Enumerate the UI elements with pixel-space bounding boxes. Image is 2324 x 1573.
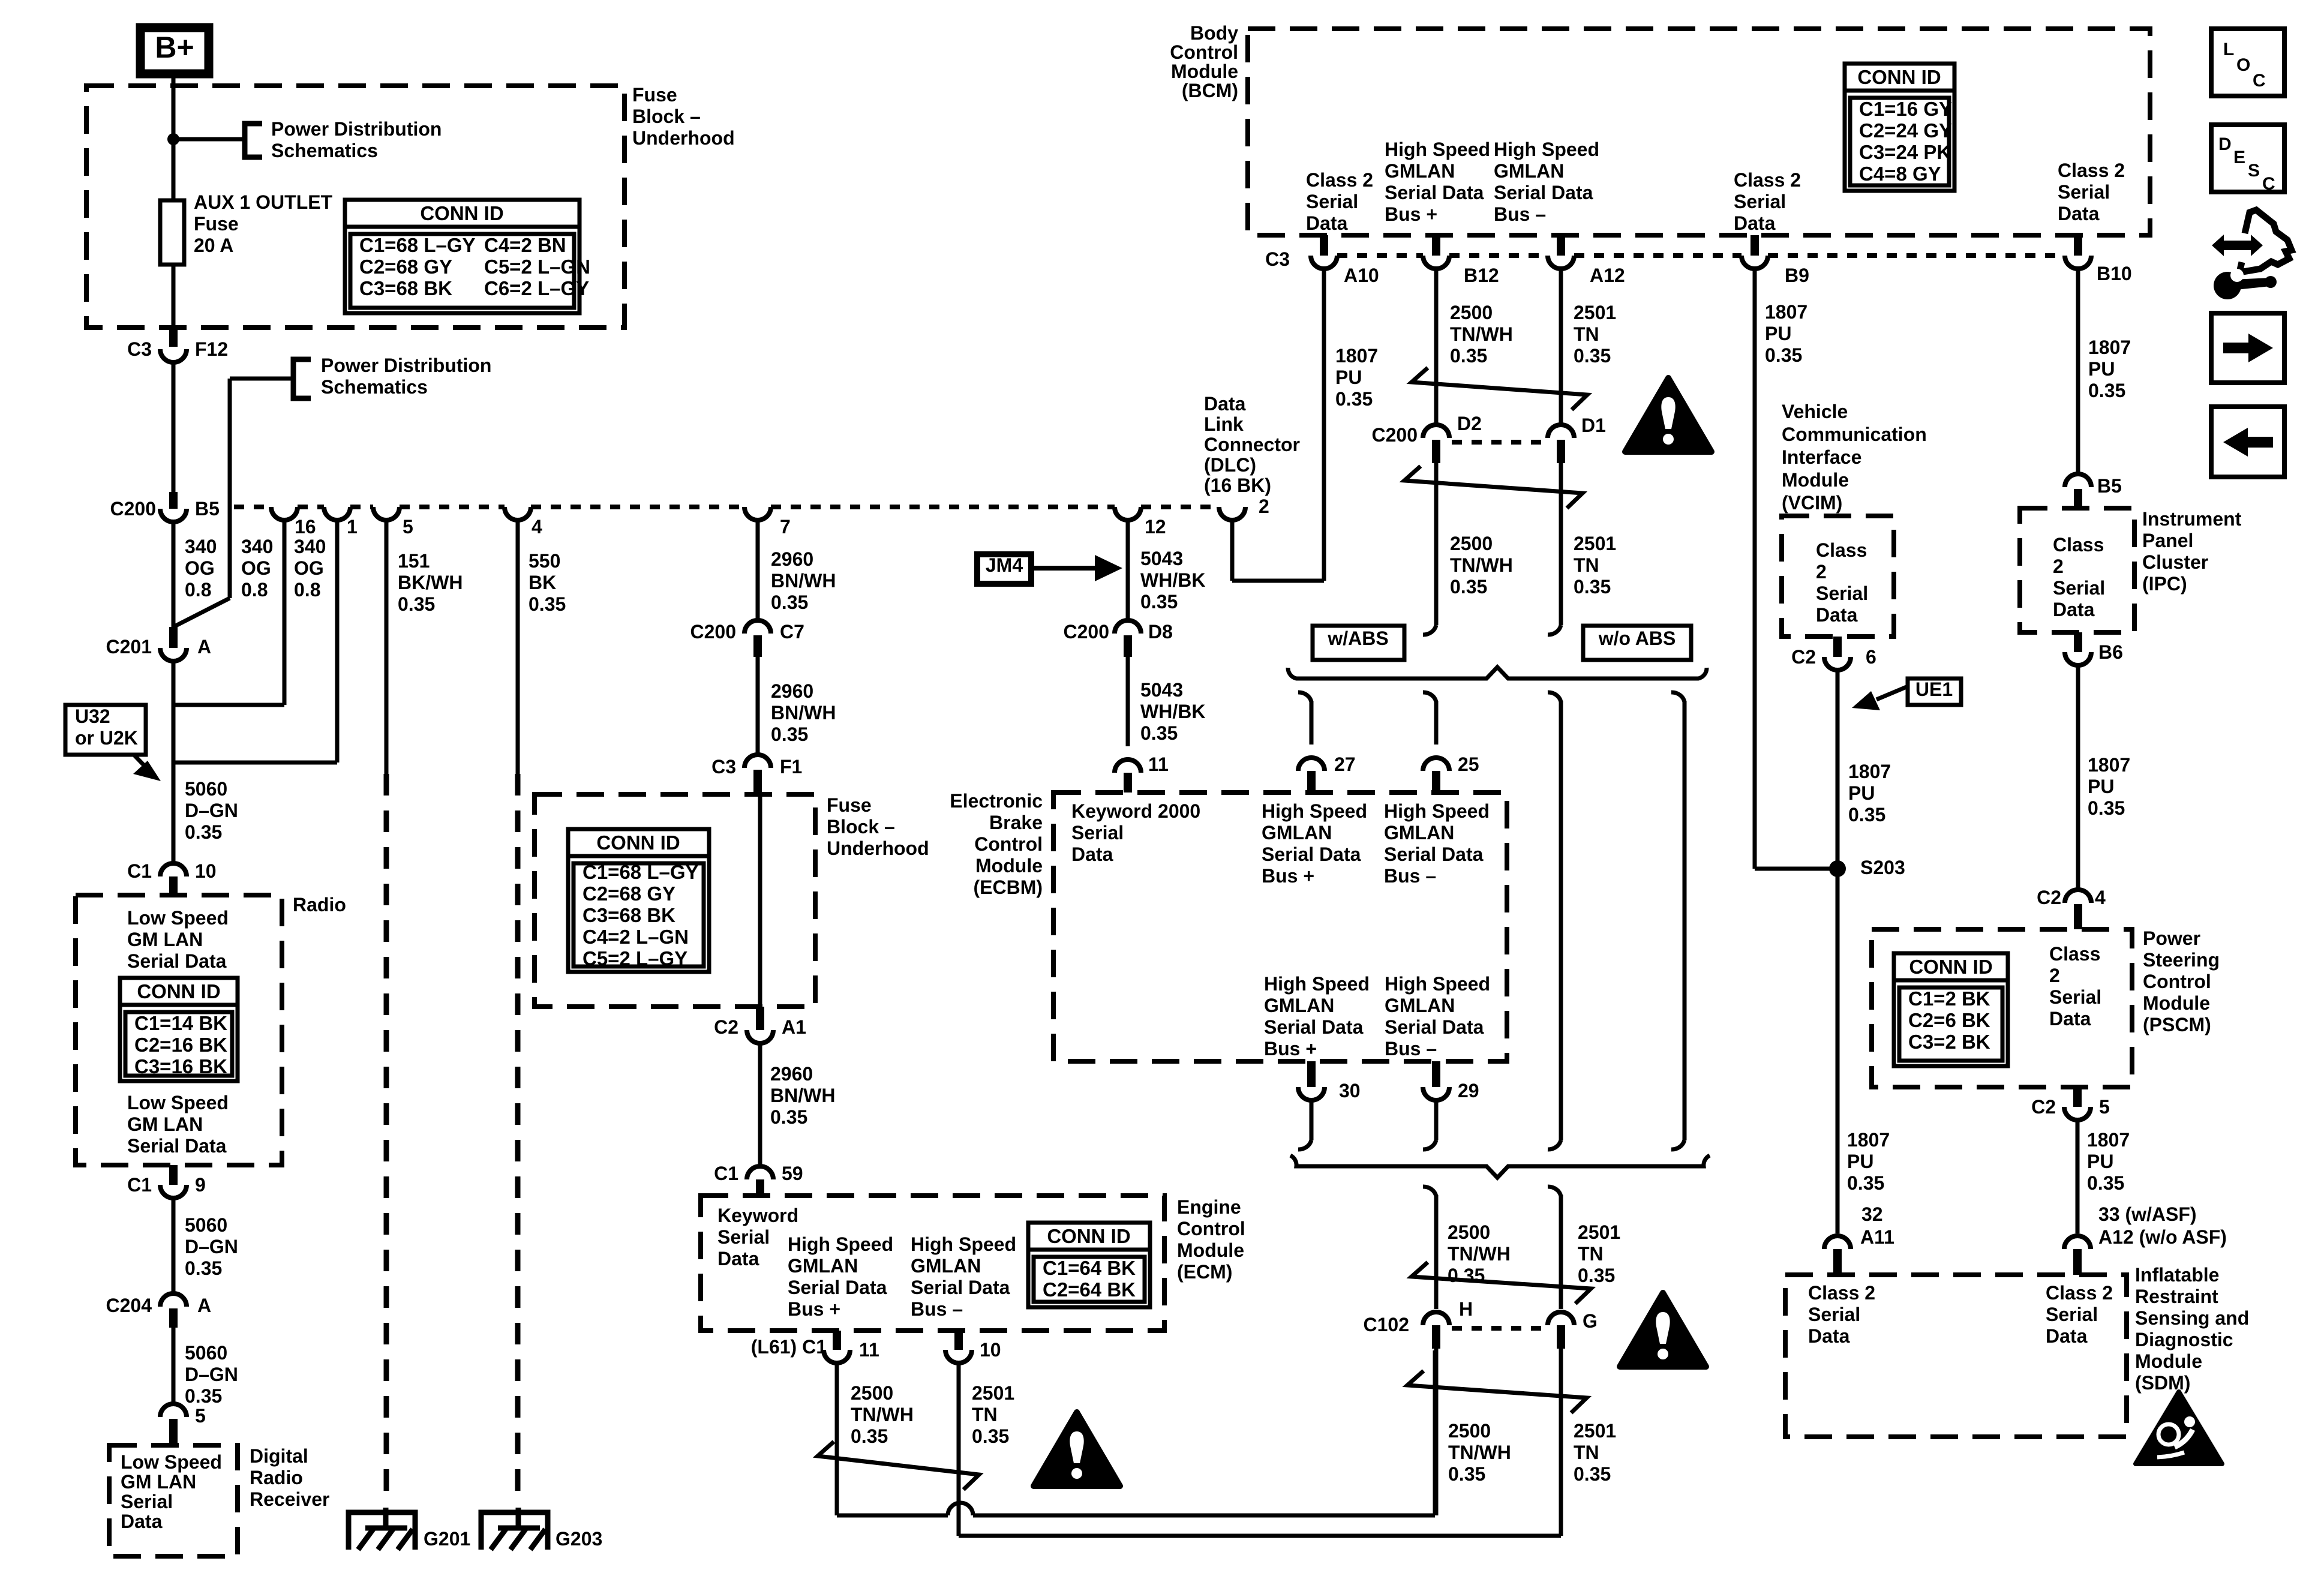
svg-text:C2=6 BK: C2=6 BK: [1908, 1009, 1990, 1031]
svg-text:Class: Class: [2053, 534, 2104, 556]
svg-text:B6: B6: [2098, 641, 2123, 663]
svg-text:C3=16 BK: C3=16 BK: [134, 1055, 227, 1077]
svg-text:10: 10: [195, 860, 217, 882]
warning triangle lower: [1620, 1293, 1706, 1367]
bcm connector row C3 dashes: [1337, 253, 1423, 258]
svg-text:Bus –: Bus –: [911, 1298, 963, 1320]
svg-text:C: C: [2262, 174, 2275, 194]
wire to power distribution reference 2: [230, 377, 293, 381]
icon box arrow right: [2211, 313, 2284, 383]
svg-text:11: 11: [859, 1339, 879, 1361]
svg-text:D2: D2: [1457, 413, 1482, 434]
svg-text:Serial: Serial: [1071, 822, 1124, 843]
svg-text:Connector: Connector: [1204, 434, 1300, 455]
svg-text:Underhood: Underhood: [632, 127, 735, 149]
svg-text:Schematics: Schematics: [271, 140, 378, 161]
svg-text:Module: Module: [2143, 992, 2210, 1014]
conn id table bcm: [1845, 64, 1954, 191]
svg-text:0.35: 0.35: [1140, 722, 1178, 744]
wire w/o abs right long: [1671, 692, 1685, 702]
svg-text:Serial Data: Serial Data: [1385, 182, 1484, 203]
svg-text:C2=68 GY: C2=68 GY: [359, 256, 452, 278]
arrow JM4: [1031, 566, 1101, 571]
svg-text:B5: B5: [195, 498, 220, 520]
svg-text:D: D: [2218, 134, 2232, 154]
svg-text:Serial Data: Serial Data: [1264, 1016, 1364, 1038]
svg-text:TN: TN: [1578, 1243, 1604, 1265]
svg-text:C3: C3: [711, 756, 736, 778]
svg-text:27: 27: [1334, 754, 1356, 775]
svg-text:Serial Data: Serial Data: [1384, 843, 1484, 865]
callout box w/ABS: [1313, 626, 1404, 660]
svg-text:0.35: 0.35: [1450, 345, 1487, 367]
icon box LOC: [2211, 29, 2284, 96]
svg-text:12: 12: [1145, 516, 1166, 538]
svg-text:2500: 2500: [851, 1382, 893, 1404]
svg-text:1807: 1807: [2088, 337, 2131, 358]
svg-text:Class: Class: [1816, 539, 1867, 561]
svg-text:CONN ID: CONN ID: [1047, 1225, 1130, 1247]
svg-text:Data: Data: [1816, 604, 1858, 626]
svg-text:GMLAN: GMLAN: [911, 1255, 981, 1277]
svg-text:Module: Module: [2135, 1350, 2202, 1372]
svg-text:C1: C1: [714, 1163, 738, 1184]
svg-text:0.35: 0.35: [1574, 345, 1611, 367]
svg-text:(VCIM): (VCIM): [1782, 492, 1842, 514]
connector C1 59: [747, 1166, 773, 1179]
svg-text:0.35: 0.35: [1765, 344, 1802, 366]
wire 550 BK: [516, 520, 520, 774]
connector C3 F1: [744, 755, 771, 768]
svg-text:2500: 2500: [1448, 1221, 1490, 1243]
svg-text:0.35: 0.35: [1140, 591, 1178, 613]
svg-text:(ECM): (ECM): [1177, 1261, 1232, 1283]
svg-text:UE1: UE1: [1915, 679, 1953, 700]
svg-text:Serial: Serial: [1306, 191, 1358, 212]
svg-text:2960: 2960: [771, 680, 813, 702]
svg-text:Serial: Serial: [1734, 191, 1786, 212]
svg-text:Vehicle: Vehicle: [1782, 401, 1848, 422]
svg-text:5060: 5060: [185, 1342, 227, 1364]
svg-text:25: 25: [1458, 754, 1479, 775]
svg-text:Serial Data: Serial Data: [1262, 843, 1361, 865]
svg-text:TN/WH: TN/WH: [1450, 323, 1513, 345]
svg-text:C2=16 BK: C2=16 BK: [134, 1034, 227, 1056]
wire B5 down: [172, 522, 176, 629]
svg-text:C1=2 BK: C1=2 BK: [1908, 987, 1990, 1010]
svg-text:Serial: Serial: [2046, 1304, 2098, 1325]
svg-text:6: 6: [1866, 646, 1876, 668]
svg-text:20 A: 20 A: [194, 235, 233, 256]
svg-text:0.35: 0.35: [185, 1385, 222, 1407]
svg-text:2501: 2501: [1578, 1221, 1620, 1243]
connector pin 5: [373, 507, 400, 520]
svg-text:C4=2 BN: C4=2 BN: [484, 234, 566, 256]
svg-text:TN/WH: TN/WH: [1450, 554, 1513, 576]
svg-text:Data: Data: [717, 1248, 759, 1269]
svg-text:A: A: [197, 1295, 211, 1316]
svg-text:Cluster: Cluster: [2142, 551, 2208, 573]
svg-text:Keyword 2000: Keyword 2000: [1071, 800, 1200, 822]
vcim class 2 serial data box: [1782, 516, 1894, 637]
svg-text:Data: Data: [2053, 599, 2095, 620]
svg-text:OG: OG: [294, 557, 324, 579]
svg-text:0.35: 0.35: [398, 593, 435, 615]
svg-text:Serial: Serial: [1808, 1304, 1860, 1325]
svg-text:A1: A1: [782, 1016, 806, 1038]
svg-text:F12: F12: [195, 338, 228, 360]
svg-text:Data: Data: [1306, 212, 1348, 234]
svg-text:4: 4: [532, 516, 542, 538]
svg-text:Bus –: Bus –: [1384, 865, 1436, 887]
svg-text:Fuse: Fuse: [194, 213, 239, 235]
connector C3 F12: [169, 328, 178, 347]
svg-text:B+: B+: [155, 31, 194, 64]
svg-text:0.8: 0.8: [294, 579, 320, 601]
svg-text:w/o ABS: w/o ABS: [1598, 628, 1676, 649]
svg-text:Sensing and: Sensing and: [2135, 1307, 2249, 1329]
svg-text:Panel: Panel: [2142, 530, 2193, 551]
wire 151 BK/WH: [385, 520, 389, 774]
svg-text:340: 340: [241, 536, 273, 557]
svg-text:C200: C200: [1064, 621, 1110, 643]
svg-text:Fuse: Fuse: [827, 794, 872, 816]
svg-text:GMLAN: GMLAN: [1384, 822, 1454, 843]
svg-text:C200: C200: [110, 498, 157, 520]
svg-text:G: G: [1583, 1310, 1598, 1332]
svg-text:5043: 5043: [1140, 548, 1183, 569]
svg-text:Data: Data: [2049, 1008, 2091, 1029]
svg-text:2501: 2501: [1574, 1420, 1616, 1442]
svg-text:Serial Data: Serial Data: [127, 1135, 227, 1157]
svg-text:BN/WH: BN/WH: [771, 570, 836, 592]
svg-text:Keyword: Keyword: [717, 1205, 798, 1226]
svg-text:Data: Data: [2058, 203, 2100, 224]
svg-text:C2=64 BK: C2=64 BK: [1043, 1278, 1136, 1301]
svg-text:Power: Power: [2143, 927, 2200, 949]
svg-text:Module: Module: [1171, 61, 1238, 82]
twisted pair marker ecm: [818, 1442, 979, 1490]
connector C200 D8: [1115, 620, 1141, 634]
svg-text:Class 2: Class 2: [1734, 169, 1801, 191]
svg-text:C1=14 BK: C1=14 BK: [134, 1012, 227, 1034]
svg-text:Radio: Radio: [250, 1467, 303, 1488]
svg-text:CONN ID: CONN ID: [1857, 66, 1941, 88]
svg-text:High Speed: High Speed: [1494, 139, 1599, 160]
svg-text:C3: C3: [127, 338, 152, 360]
svg-text:Data: Data: [1808, 1325, 1850, 1347]
svg-text:C1: C1: [127, 860, 152, 882]
svg-text:CONN ID: CONN ID: [137, 980, 220, 1002]
svg-text:A: A: [197, 636, 211, 658]
svg-text:Bus +: Bus +: [1385, 203, 1437, 225]
wire 2960 BN/WH segment 2: [756, 657, 760, 755]
svg-text:(ECBM): (ECBM): [973, 876, 1043, 898]
svg-text:C5=2 L–GY: C5=2 L–GY: [582, 947, 687, 969]
svg-text:Data: Data: [2046, 1325, 2088, 1347]
wire 2960 BN/WH segment 1: [756, 520, 760, 620]
svg-text:Bus –: Bus –: [1385, 1038, 1437, 1059]
wire w/o abs left long: [1548, 692, 1561, 702]
svg-text:Interface: Interface: [1782, 446, 1861, 468]
svg-text:GMLAN: GMLAN: [1264, 995, 1334, 1016]
connector C2 A1: [756, 1007, 764, 1030]
svg-text:D–GN: D–GN: [185, 800, 238, 821]
svg-text:C3=2 BK: C3=2 BK: [1908, 1031, 1990, 1053]
wire B+ to fuse: [172, 74, 176, 200]
inflatable restraint sdm box: [1785, 1275, 2127, 1437]
svg-text:B10: B10: [2097, 263, 2132, 284]
svg-text:GMLAN: GMLAN: [1262, 822, 1332, 843]
wire 29 to brace 2: [1434, 1100, 1439, 1140]
instrument panel cluster box: [2020, 508, 2134, 632]
conn id table pscm: [1894, 953, 2008, 1066]
svg-text:0.35: 0.35: [185, 821, 222, 843]
svg-text:1807: 1807: [2088, 754, 2130, 776]
wire 2960 BN/WH segment 3: [758, 1043, 762, 1166]
connector 27: [1298, 758, 1325, 771]
svg-text:Class 2: Class 2: [1306, 169, 1373, 191]
svg-text:C3=68 BK: C3=68 BK: [359, 277, 452, 299]
svg-text:0.35: 0.35: [2088, 380, 2125, 401]
svg-text:C2: C2: [2031, 1096, 2056, 1118]
svg-text:S: S: [2248, 161, 2260, 181]
svg-text:1807: 1807: [1765, 301, 1807, 323]
svg-text:Module: Module: [975, 855, 1043, 876]
svg-text:PU: PU: [1335, 367, 1362, 388]
icon car diagnostic with arrows and wrench: [2239, 210, 2292, 272]
svg-text:Serial: Serial: [717, 1226, 770, 1248]
svg-text:C204: C204: [106, 1295, 152, 1316]
svg-text:or U2K: or U2K: [75, 727, 138, 749]
svg-text:C1=16 GY: C1=16 GY: [1859, 98, 1952, 120]
svg-text:9: 9: [195, 1174, 206, 1196]
svg-text:C3=68 BK: C3=68 BK: [582, 904, 675, 926]
svg-text:High Speed: High Speed: [911, 1233, 1016, 1255]
svg-text:C7: C7: [780, 621, 804, 643]
svg-text:H: H: [1459, 1298, 1473, 1320]
svg-text:0.35: 0.35: [1448, 1463, 1485, 1485]
junction dot B+ feed: [167, 133, 179, 145]
svg-text:340: 340: [294, 536, 326, 557]
icon box arrow left: [2211, 407, 2284, 477]
fuse AUX 1 OUTLET 20A: [160, 200, 184, 265]
svg-text:TN/WH: TN/WH: [1448, 1442, 1511, 1463]
connector B6 ipc: [2074, 632, 2082, 652]
svg-text:E: E: [2233, 148, 2245, 167]
svg-text:2: 2: [2053, 556, 2064, 577]
wire 1807 PU from B10: [2076, 269, 2080, 474]
svg-text:PU: PU: [1847, 1151, 1873, 1172]
svg-text:D–GN: D–GN: [185, 1364, 238, 1385]
connector 30: [1307, 1061, 1316, 1087]
svg-text:Block –: Block –: [827, 816, 895, 837]
svg-text:TN: TN: [1574, 323, 1599, 345]
svg-text:Serial: Serial: [2058, 181, 2110, 203]
callout box U32 or U2K: [65, 705, 146, 755]
wire to power distribution reference 1: [173, 137, 243, 142]
svg-text:Serial: Serial: [1816, 583, 1868, 604]
wire 2500 to brace: [1434, 463, 1439, 625]
svg-text:B9: B9: [1785, 265, 1809, 286]
svg-text:Bus +: Bus +: [1262, 865, 1314, 887]
wire drop to pin 25: [1423, 692, 1436, 702]
svg-text:(IPC): (IPC): [2142, 573, 2187, 595]
svg-text:Module: Module: [1782, 469, 1849, 491]
svg-text:G203: G203: [556, 1528, 602, 1550]
svg-text:A12 (w/o ASF): A12 (w/o ASF): [2098, 1226, 2227, 1248]
svg-text:TN: TN: [1574, 1442, 1599, 1463]
svg-text:0.35: 0.35: [851, 1425, 888, 1447]
svg-text:GM LAN: GM LAN: [127, 929, 203, 950]
digital radio receiver box: [109, 1445, 238, 1556]
wire 5060 D-GN segment 1: [172, 763, 176, 863]
svg-text:C4=8 GY: C4=8 GY: [1859, 163, 1941, 185]
power steering control module box: [1872, 929, 2132, 1087]
svg-text:4: 4: [2095, 887, 2106, 908]
svg-text:550: 550: [529, 550, 560, 572]
svg-text:Data: Data: [121, 1511, 163, 1532]
connector C1 10 radio: [160, 863, 187, 876]
svg-text:1807: 1807: [1335, 345, 1378, 367]
svg-text:CONN ID: CONN ID: [1909, 956, 1992, 978]
svg-text:Control: Control: [974, 833, 1043, 855]
connector C200 C7: [744, 620, 771, 634]
wire 1807 PU b6 to c2 4: [2076, 665, 2080, 890]
connector A12: [1557, 235, 1565, 256]
svg-text:Power Distribution: Power Distribution: [271, 118, 442, 140]
splice brace upper: [1288, 667, 1707, 679]
svg-text:G201: G201: [424, 1528, 470, 1550]
connector C1 9 radio: [169, 1165, 178, 1185]
svg-text:BK: BK: [529, 572, 556, 593]
twisted pair marker above C102: [1412, 1262, 1591, 1304]
svg-text:Class 2: Class 2: [1808, 1282, 1875, 1304]
wire 340 OG segment 1: [172, 362, 176, 492]
svg-text:2501: 2501: [1574, 302, 1616, 323]
svg-text:Inflatable: Inflatable: [2135, 1264, 2219, 1286]
connector B10: [2074, 235, 2082, 256]
svg-text:1807: 1807: [2087, 1129, 2130, 1151]
splice brace lower: [1290, 1155, 1710, 1178]
wire brace2 to C102 G: [1548, 1187, 1561, 1196]
svg-text:w/ABS: w/ABS: [1327, 628, 1388, 649]
svg-text:TN: TN: [1574, 554, 1599, 576]
svg-text:TN/WH: TN/WH: [851, 1404, 914, 1425]
fuse block underhood box 2: [535, 794, 815, 1007]
svg-text:5: 5: [195, 1405, 206, 1427]
svg-text:16: 16: [295, 516, 316, 538]
connector C2 5 pscm: [2073, 1087, 2082, 1107]
svg-text:30: 30: [1339, 1080, 1361, 1101]
conn id table ecm: [1028, 1223, 1150, 1307]
engine control module box: [701, 1196, 1164, 1331]
callout box UE1: [1908, 679, 1961, 705]
connector C204 A: [160, 1293, 187, 1307]
svg-text:2501: 2501: [972, 1382, 1014, 1404]
svg-text:Bus +: Bus +: [788, 1298, 840, 1320]
svg-text:C200: C200: [1372, 424, 1418, 446]
svg-text:Diagnostic: Diagnostic: [2135, 1329, 2233, 1350]
svg-text:C2: C2: [714, 1016, 738, 1038]
svg-text:GMLAN: GMLAN: [1385, 995, 1455, 1016]
svg-text:0.35: 0.35: [1847, 1172, 1884, 1194]
svg-text:GMLAN: GMLAN: [1385, 160, 1455, 182]
svg-text:TN/WH: TN/WH: [1448, 1243, 1511, 1265]
svg-text:(DLC): (DLC): [1204, 454, 1256, 476]
svg-text:D8: D8: [1148, 621, 1173, 643]
svg-text:5060: 5060: [185, 1214, 227, 1236]
svg-text:2501: 2501: [1574, 533, 1616, 554]
ground G203: [481, 1512, 548, 1550]
svg-text:GMLAN: GMLAN: [1494, 160, 1564, 182]
svg-text:Serial Data: Serial Data: [127, 950, 227, 972]
wire 1807 PU from B9: [1753, 269, 1757, 869]
svg-text:PU: PU: [1848, 782, 1875, 804]
connector A10: [1320, 235, 1328, 256]
svg-text:Data: Data: [1071, 843, 1113, 865]
svg-text:2960: 2960: [770, 1063, 813, 1085]
svg-text:C2: C2: [2037, 887, 2061, 908]
wire 1807 PU c2 5 to A12: [2076, 1120, 2080, 1233]
svg-text:Fuse: Fuse: [632, 84, 677, 106]
svg-text:0.8: 0.8: [241, 579, 268, 601]
svg-text:2960: 2960: [771, 548, 813, 570]
svg-text:0.35: 0.35: [185, 1257, 222, 1279]
connector C2 6 vcim: [1833, 637, 1842, 657]
svg-text:High Speed: High Speed: [1264, 973, 1370, 995]
svg-text:7: 7: [780, 516, 791, 538]
svg-text:2: 2: [1259, 496, 1269, 517]
svg-text:B12: B12: [1464, 265, 1499, 286]
svg-text:WH/BK: WH/BK: [1140, 569, 1205, 591]
svg-text:Control: Control: [2143, 971, 2211, 992]
svg-text:High Speed: High Speed: [1385, 139, 1490, 160]
callout box w/o ABS: [1583, 626, 1691, 660]
connector pin 16: [271, 507, 298, 520]
svg-text:C102: C102: [1364, 1314, 1410, 1335]
twisted pair marker below C102: [1407, 1371, 1587, 1413]
connector pin 2: [1219, 507, 1245, 520]
svg-text:Steering: Steering: [2143, 949, 2220, 971]
svg-text:0.35: 0.35: [1578, 1265, 1615, 1286]
wire 2501 TN bcm segment: [1559, 269, 1563, 425]
connector 5 digital radio receiver: [160, 1404, 187, 1417]
connector B12: [1432, 235, 1440, 256]
svg-text:Serial Data: Serial Data: [1494, 182, 1593, 203]
wire 1807 PU vcim to s203: [1836, 670, 1840, 869]
wire 1807 PU from A10 to dlc pin 2: [1322, 269, 1326, 581]
svg-text:B5: B5: [2097, 475, 2122, 497]
svg-text:1807: 1807: [1847, 1129, 1890, 1151]
svg-text:GM LAN: GM LAN: [121, 1471, 196, 1493]
svg-text:5043: 5043: [1140, 679, 1183, 701]
svg-text:11: 11: [1148, 754, 1169, 775]
reference bracket power distribution 2: [293, 359, 311, 398]
svg-text:High Speed: High Speed: [1384, 800, 1490, 822]
svg-text:Control: Control: [1177, 1218, 1245, 1239]
wire pin1 riser: [173, 761, 337, 765]
svg-text:C1=68 L–GY: C1=68 L–GY: [582, 861, 699, 883]
svg-text:Serial: Serial: [121, 1491, 173, 1512]
svg-text:Serial Data: Serial Data: [911, 1277, 1010, 1298]
svg-text:C1=68 L–GY: C1=68 L–GY: [359, 234, 476, 256]
svg-text:Control: Control: [1170, 41, 1238, 63]
body control module box: [1248, 29, 2150, 235]
svg-text:Link: Link: [1204, 413, 1244, 435]
wire s203 to A11: [1836, 869, 1840, 1233]
svg-text:TN: TN: [972, 1404, 998, 1425]
